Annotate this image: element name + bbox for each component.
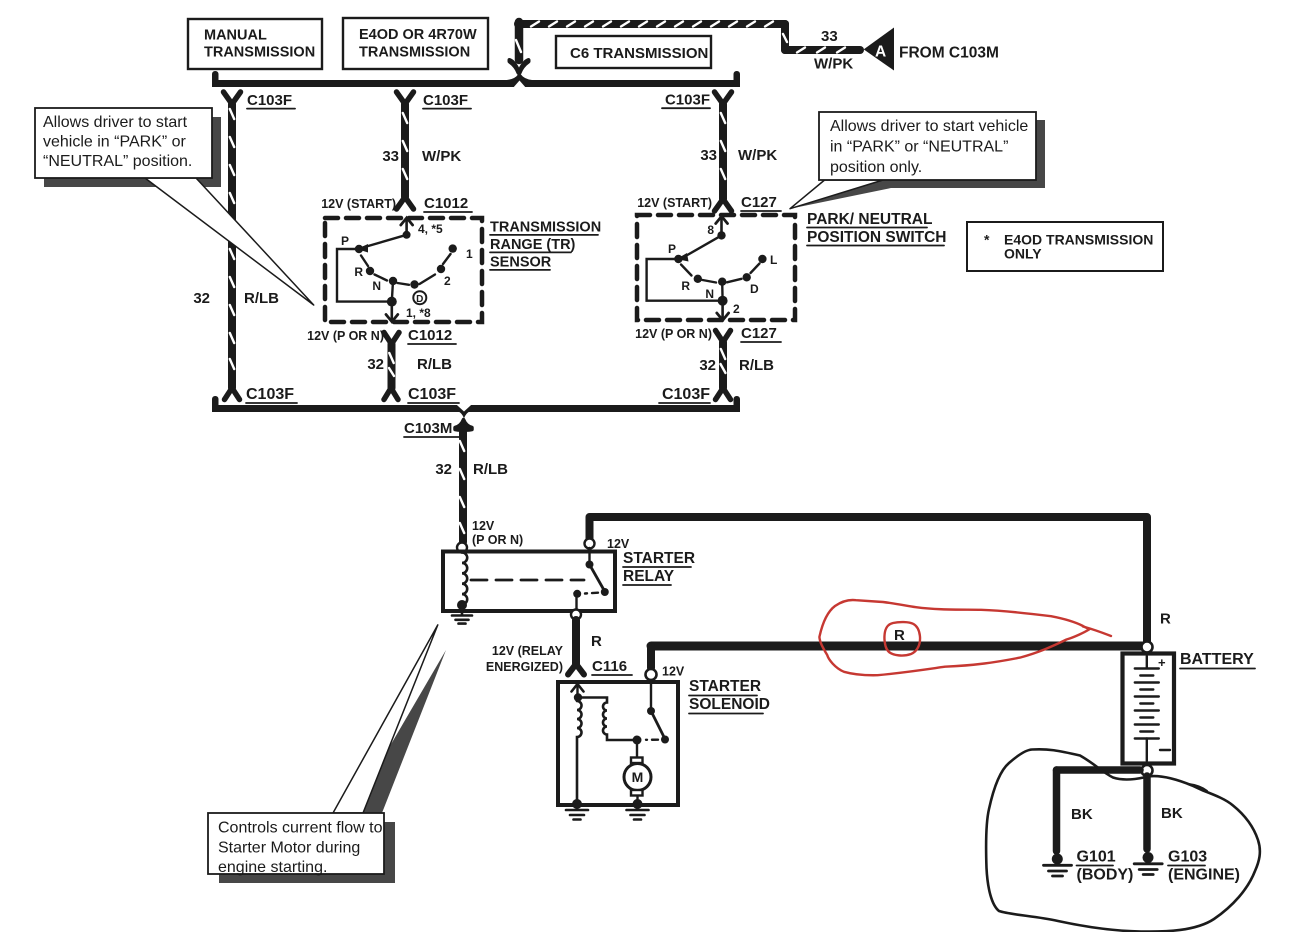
- svg-text:C103M: C103M: [404, 420, 452, 437]
- wire: battery negative bar (thick): [1057, 766, 1141, 774]
- TR contact N: [389, 277, 397, 285]
- motor ground dot: [633, 799, 643, 809]
- svg-text:TRANSMISSION: TRANSMISSION: [359, 45, 470, 61]
- solenoid switch dashed gap: [646, 739, 658, 741]
- label C1012 (top): [424, 195, 472, 212]
- svg-text:Allows driver to start vehicle: Allows driver to start vehicle: [830, 118, 1028, 135]
- relay output contact: [573, 590, 581, 598]
- wire: 32 R/LB below C127 (hatched): [721, 342, 726, 388]
- label C103F (top right): [662, 92, 710, 109]
- C127 park/neutral dashed box: [637, 215, 795, 320]
- callout: Allows driver to start vehicle in PARK or NEUTRAL (left): [35, 108, 314, 305]
- svg-text:E4OD OR 4R70W: E4OD OR 4R70W: [359, 27, 477, 43]
- svg-text:C116: C116: [592, 658, 627, 675]
- svg-text:C1012: C1012: [408, 327, 452, 344]
- label C103F (bottom right): [659, 386, 710, 403]
- svg-text:D: D: [416, 294, 423, 305]
- connector C1012 (top, 12V START): [397, 197, 414, 209]
- connector C116: [568, 664, 584, 675]
- relay coil: [462, 553, 467, 605]
- svg-text:12V (START): 12V (START): [637, 196, 712, 210]
- svg-text:ENERGIZED): ENERGIZED): [486, 660, 563, 674]
- svg-text:position only.: position only.: [830, 159, 922, 176]
- motor M: [624, 758, 651, 800]
- svg-text:33: 33: [821, 28, 838, 45]
- svg-text:FROM C103M: FROM C103M: [899, 45, 999, 62]
- svg-text:R/LB: R/LB: [417, 356, 452, 373]
- connector C103F (bottom middle): [384, 388, 398, 400]
- svg-text:12V (RELAY: 12V (RELAY: [492, 644, 564, 658]
- svg-text:G101: G101: [1077, 849, 1116, 866]
- svg-text:33: 33: [700, 147, 717, 164]
- relay switch blade: [590, 565, 605, 592]
- svg-text:12V: 12V: [662, 665, 685, 679]
- relay switch fixed contact: [588, 548, 590, 565]
- label: STARTER SOLENOID: [689, 678, 770, 714]
- svg-text:C6 TRANSMISSION: C6 TRANSMISSION: [570, 45, 708, 62]
- terminal: relay 12V input (circle): [585, 539, 595, 549]
- TR arc dashes: [361, 254, 451, 285]
- svg-text:C1012: C1012: [424, 195, 468, 212]
- TR terminal dot 4,*5: [403, 231, 411, 239]
- svg-text:4, *5: 4, *5: [418, 222, 443, 236]
- svg-text:Controls current flow to: Controls current flow to: [218, 820, 383, 837]
- black annotation: freehand loop around grounds: [986, 749, 1260, 931]
- relay coil ground dot: [457, 600, 467, 610]
- ground (relay coil): [452, 605, 472, 624]
- svg-text:ONLY: ONLY: [1004, 246, 1042, 262]
- C127 contact R: [694, 275, 702, 283]
- starter relay box: [443, 552, 615, 612]
- TR contact R: [366, 267, 374, 275]
- svg-text:(ENGINE): (ENGINE): [1168, 867, 1240, 884]
- svg-text:R: R: [894, 627, 905, 644]
- svg-text:8: 8: [707, 223, 714, 237]
- red annotation: pen tail at right tip: [1083, 627, 1111, 637]
- svg-text:TRANSMISSION: TRANSMISSION: [490, 220, 601, 236]
- label C103F (top left): [247, 92, 295, 109]
- TR sensor dashed box: [325, 218, 482, 322]
- svg-text:P: P: [341, 234, 349, 248]
- wire: hatched feed from connector A (top run): [510, 22, 861, 74]
- svg-text:12V: 12V: [607, 537, 630, 551]
- relay mechanical link (dashed): [471, 579, 584, 582]
- svg-text:P: P: [668, 242, 676, 256]
- svg-text:PARK/ NEUTRAL: PARK/ NEUTRAL: [807, 211, 932, 228]
- wire: 32 R/LB below TR sensor (hatched): [389, 344, 394, 388]
- label C127 (bottom): [741, 325, 781, 342]
- TR wire N to junction: [392, 281, 393, 302]
- svg-text:1, *8: 1, *8: [406, 306, 431, 320]
- svg-text:M: M: [632, 769, 644, 785]
- label: 12V (P OR N) at relay: [472, 519, 523, 547]
- svg-text:R: R: [354, 265, 363, 279]
- TR contact D position: [410, 280, 418, 288]
- svg-text:D: D: [750, 282, 759, 296]
- label: G103 (ENGINE): [1168, 849, 1240, 884]
- wire: 32 R/LB to starter relay (hatched): [460, 428, 464, 542]
- relay switch dashed gap: [585, 592, 598, 595]
- ground G103: [1134, 852, 1162, 875]
- svg-text:STARTER: STARTER: [689, 678, 761, 695]
- svg-text:C103F: C103F: [246, 386, 294, 403]
- svg-text:BK: BK: [1161, 805, 1183, 822]
- svg-text:BATTERY: BATTERY: [1180, 651, 1254, 668]
- svg-text:STARTER: STARTER: [623, 550, 695, 567]
- solenoid pull-in coil (left): [577, 701, 582, 799]
- callout: Controls current flow to Starter Motor during engine starting: [208, 625, 446, 883]
- svg-text:R: R: [681, 279, 690, 293]
- svg-text:RANGE (TR): RANGE (TR): [490, 237, 576, 253]
- TR wiper blade to P: [357, 235, 407, 253]
- C127 contact L: [758, 255, 766, 263]
- svg-text:C103F: C103F: [665, 92, 710, 109]
- svg-text:R: R: [591, 633, 602, 650]
- arrowhead into bus: [510, 60, 529, 73]
- svg-text:32: 32: [367, 356, 384, 373]
- C127 thin link P to output: [647, 259, 723, 301]
- ground (solenoid coil): [566, 805, 588, 820]
- C127 arc dashes: [681, 264, 760, 283]
- TR thin link P to output: [337, 249, 392, 302]
- label: BATTERY: [1180, 651, 1255, 669]
- wire: solenoid 12V feed from battery (thick): [651, 642, 1143, 651]
- C127 wiper blade to P: [677, 235, 722, 261]
- C127 contact D: [743, 273, 751, 281]
- C127 terminal dot 8: [717, 231, 725, 239]
- red annotation: small loop around R: [884, 622, 920, 655]
- TR contact 1: [449, 244, 457, 252]
- label: 12V (RELAY ENERGIZED): [486, 644, 564, 674]
- battery box: [1123, 654, 1175, 764]
- C127 contact P: [674, 255, 682, 263]
- svg-text:G103: G103: [1168, 849, 1207, 866]
- TR contact 2: [437, 265, 445, 273]
- label: STARTER RELAY: [623, 550, 695, 585]
- label C127 (top): [741, 194, 781, 211]
- wire: 32 R/LB left vertical (hatched): [230, 104, 234, 388]
- C127 exit arrow (pin 2): [717, 301, 729, 321]
- svg-text:W/PK: W/PK: [814, 56, 853, 73]
- connector C127 (bottom, 12V P OR N): [716, 331, 731, 343]
- svg-text:SOLENOID: SOLENOID: [689, 696, 770, 713]
- label D circled (TR): [413, 291, 426, 305]
- TR contact P: [355, 245, 363, 253]
- TR sensor entry arrow (pin 4,*5): [401, 218, 413, 236]
- ground G101: [1044, 854, 1072, 877]
- label C116: [592, 658, 632, 675]
- box: E4OD OR 4R70W TRANSMISSION: [343, 18, 488, 69]
- wire: 33 W/PK right vertical (hatched): [721, 104, 725, 199]
- svg-text:*: *: [984, 232, 990, 248]
- node: battery negative junction (circle): [1142, 765, 1153, 776]
- svg-text:12V (START): 12V (START): [321, 197, 396, 211]
- svg-text:POSITION SWITCH: POSITION SWITCH: [807, 229, 947, 246]
- svg-text:12V (P OR N): 12V (P OR N): [307, 329, 384, 343]
- box: * E4OD TRANSMISSION ONLY: [967, 222, 1163, 271]
- red annotation: large loop around battery feed wire: [819, 600, 1089, 675]
- terminal: solenoid 12V input (circle): [646, 669, 657, 680]
- svg-text:MANUAL: MANUAL: [204, 28, 267, 44]
- svg-text:33: 33: [382, 148, 399, 165]
- label: TRANSMISSION RANGE (TR) SENSOR: [490, 220, 601, 271]
- black annotation: pen overshoot tick: [1188, 784, 1207, 791]
- bus: top transmission bus (brace): [212, 71, 740, 87]
- C127 contact N: [718, 278, 726, 286]
- svg-text:C103F: C103F: [408, 386, 456, 403]
- C127 wire N to junction: [721, 282, 724, 301]
- connector C1012 (bottom, 12V P OR N): [384, 333, 399, 345]
- svg-text:12V (P OR N): 12V (P OR N): [635, 327, 712, 341]
- svg-text:(P OR N): (P OR N): [472, 533, 523, 547]
- ground (starter motor): [627, 805, 649, 820]
- terminal: relay coil input (circle): [457, 543, 467, 553]
- wire: R relay output (thick): [572, 620, 580, 664]
- connector C103M (male arrow): [455, 420, 472, 431]
- terminal: relay output (circle): [571, 610, 581, 620]
- C127 junction dot: [718, 296, 728, 306]
- box: C6 TRANSMISSION: [556, 36, 711, 68]
- connector C127 (top, 12V START): [715, 199, 732, 211]
- svg-text:12V: 12V: [472, 519, 495, 533]
- svg-text:1: 1: [466, 247, 473, 261]
- TR exit arrow (pin 1,*8): [386, 302, 398, 322]
- svg-text:W/PK: W/PK: [738, 147, 777, 164]
- wire: relay 12V feed from battery (thick): [590, 517, 1148, 645]
- svg-text:engine starting.: engine starting.: [218, 859, 327, 876]
- svg-text:W/PK: W/PK: [422, 148, 461, 165]
- svg-text:(BODY): (BODY): [1077, 867, 1134, 884]
- label C103F (bottom middle): [408, 386, 459, 403]
- svg-text:R/LB: R/LB: [244, 290, 279, 307]
- wire to motor: [636, 740, 638, 757]
- label C1012 (bottom): [408, 327, 456, 344]
- svg-text:C127: C127: [741, 194, 777, 211]
- solenoid switch fixed contact: [650, 680, 652, 711]
- svg-text:2: 2: [733, 302, 740, 316]
- svg-text:C103F: C103F: [247, 92, 292, 109]
- svg-text:N: N: [705, 287, 714, 301]
- svg-text:SENSOR: SENSOR: [490, 255, 552, 271]
- wire: 33 W/PK middle vertical (hatched): [403, 104, 407, 197]
- svg-text:RELAY: RELAY: [623, 568, 675, 585]
- connector C103F (top middle): [397, 92, 414, 104]
- connector A (FROM C103M): [864, 28, 894, 71]
- svg-text:32: 32: [435, 461, 452, 478]
- connector C103F (top right): [715, 92, 732, 104]
- svg-text:Allows driver to start: Allows driver to start: [43, 114, 188, 131]
- solenoid coil ground dot (left): [572, 799, 582, 809]
- starter solenoid box: [558, 682, 678, 805]
- svg-text:Starter Motor during: Starter Motor during: [218, 840, 360, 857]
- svg-text:32: 32: [699, 357, 716, 374]
- svg-text:C127: C127: [741, 325, 777, 342]
- label C103F (bottom left): [246, 386, 297, 403]
- svg-text:A: A: [875, 44, 886, 61]
- svg-text:R: R: [1160, 611, 1171, 628]
- svg-text:C103F: C103F: [423, 92, 468, 109]
- callout: Allows driver to start vehicle in PARK or NEUTRAL only (right): [790, 112, 1045, 209]
- connector C103F (bottom right): [716, 388, 731, 400]
- svg-text:TRANSMISSION: TRANSMISSION: [204, 45, 315, 61]
- svg-text:“NEUTRAL” position.: “NEUTRAL” position.: [43, 153, 192, 170]
- svg-text:in “PARK” or “NEUTRAL”: in “PARK” or “NEUTRAL”: [830, 139, 1008, 156]
- svg-text:vehicle in “PARK” or: vehicle in “PARK” or: [43, 134, 187, 151]
- wire: BK to G103 (thick): [1143, 776, 1151, 849]
- solenoid motor junction dot: [633, 736, 642, 745]
- svg-text:32: 32: [193, 290, 210, 307]
- label C103M: [404, 420, 459, 437]
- solenoid entry arrow: [572, 684, 584, 698]
- label: G101 (BODY): [1077, 849, 1134, 884]
- connector C103F (bottom left): [225, 388, 240, 400]
- svg-text:N: N: [372, 279, 381, 293]
- box: MANUAL TRANSMISSION: [188, 19, 322, 69]
- label C103F (top middle): [423, 92, 471, 109]
- solenoid switch blade: [651, 711, 665, 738]
- wire: BK to G101 (thick): [1053, 770, 1061, 851]
- svg-text:C103F: C103F: [662, 386, 710, 403]
- svg-text:L: L: [770, 253, 777, 267]
- svg-text:R/LB: R/LB: [473, 461, 508, 478]
- solenoid hold-in coil (right): [578, 698, 633, 741]
- bus: bottom transmission bus (brace): [212, 396, 740, 419]
- svg-text:R/LB: R/LB: [739, 357, 774, 374]
- label: PARK/ NEUTRAL POSITION SWITCH: [807, 211, 947, 246]
- solenoid junction dot: [574, 693, 582, 701]
- connector C103F (top left): [224, 92, 241, 104]
- C127 entry arrow (pin 8): [716, 216, 728, 235]
- svg-text:BK: BK: [1071, 806, 1093, 823]
- TR junction dot: [387, 297, 397, 307]
- node: battery positive junction (circle): [1142, 642, 1153, 653]
- svg-text:2: 2: [444, 274, 451, 288]
- battery cells: [1135, 656, 1170, 761]
